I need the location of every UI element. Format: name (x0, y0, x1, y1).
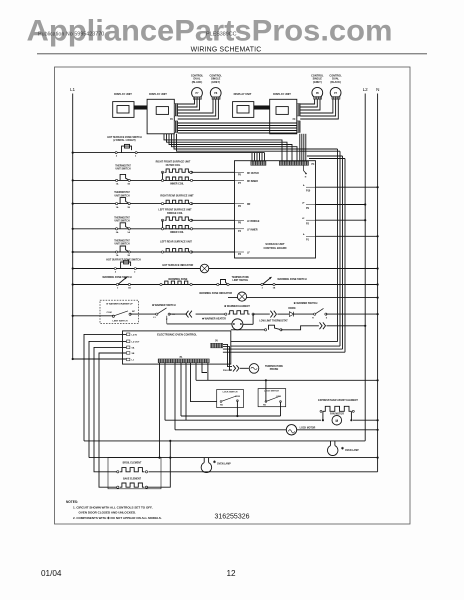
svg-text:DISPLAY UNIT: DISPLAY UNIT (234, 92, 252, 96)
svg-text:OVEN DOOR CLOSED AND UNLOCKED.: OVEN DOOR CLOSED AND UNLOCKED. (79, 511, 137, 515)
svg-text:DISPLAY UNIT: DISPLAY UNIT (114, 92, 132, 96)
wire element to diode (253, 313, 270, 315)
wire bundle outer harness cascade (164, 134, 282, 161)
svg-text:1B: 1B (127, 255, 130, 257)
svg-text:OVEN LAMP: OVEN LAMP (217, 463, 231, 466)
svg-text:L1: L1 (70, 87, 76, 92)
eoc bottom harness wires (164, 363, 166, 420)
bake element return wire (147, 441, 171, 487)
wire lock switch2 output (280, 402, 282, 416)
svg-text:NC: NC (132, 311, 136, 313)
resistor LR coil (161, 251, 163, 253)
wire C to L2 (84, 440, 365, 442)
control knob P7 (192, 88, 203, 99)
board jumper stub (304, 165, 307, 173)
wires control knobs to DU4 connector (300, 99, 314, 104)
wire row7 (72, 283, 74, 285)
right bus bottom return wires (231, 341, 338, 343)
display unit DU3 (233, 102, 254, 118)
svg-text:THERMOSTAT: THERMOSTAT (115, 165, 131, 168)
wire heater to coil node (243, 323, 253, 325)
warmer heater receptacle (166, 316, 168, 324)
svg-text:COM: COM (276, 396, 281, 398)
thermostat switch S5 (116, 251, 118, 253)
svg-text:✱ WARMER ELEMENT: ✱ WARMER ELEMENT (224, 305, 250, 308)
board pin P10 wire to N (306, 186, 316, 188)
svg-text:Publication No 5995423770: Publication No 5995423770 (38, 32, 104, 38)
svg-text:1B: 1B (127, 184, 130, 186)
lamp hot surface indicator (200, 264, 209, 273)
svg-text:LOCK SWITCH: LOCK SWITCH (223, 392, 238, 394)
svg-text:INNER COIL: INNER COIL (170, 231, 184, 234)
svg-text:HOT SURFACE INDICATOR: HOT SURFACE INDICATOR (162, 264, 193, 267)
svg-text:WARMING ZONE SWITCH: WARMING ZONE SWITCH (102, 276, 131, 279)
svg-text:NO: NO (263, 404, 267, 406)
svg-text:01/04: 01/04 (41, 569, 62, 578)
wire L1 vertical (72, 94, 74, 360)
svg-text:COM: COM (235, 396, 240, 398)
thermostat switch S2 (116, 179, 118, 181)
svg-text:1B: 1B (128, 288, 131, 290)
right bus vertical wires (337, 149, 339, 342)
wire warming zone indicator row (228, 297, 378, 299)
svg-text:L2 OUT: L2 OUT (132, 342, 140, 344)
temperature probe jack (249, 364, 259, 374)
wire A oven circuits to N (165, 419, 321, 421)
svg-text:1. CIRCUIT SHOWN WITH ALL CON: 1. CIRCUIT SHOWN WITH ALL CONTROLS SET T… (73, 506, 153, 510)
svg-text:ELECTRONIC OVEN CONTROL: ELECTRONIC OVEN CONTROL (157, 332, 197, 336)
lock motor M2 (175, 429, 286, 431)
wire bundle DU2-F0 to DU4-F0 (178, 122, 297, 124)
svg-text:DIODE: DIODE (288, 308, 296, 310)
connector DU4 upper (297, 104, 300, 117)
probe plug chevrons (233, 365, 236, 371)
svg-text:DISPLAY UNIT: DISPLAY UNIT (149, 92, 167, 96)
wire low limit to chevrons (281, 326, 319, 330)
lock switch box 2 (258, 389, 286, 407)
board pin P6 RR (190, 203, 192, 205)
wire row5 (72, 251, 74, 253)
svg-text:OVEN LAMP: OVEN LAMP (345, 449, 359, 452)
display unit DU1 (113, 102, 134, 118)
warming zone switch 2 (261, 283, 263, 285)
expressthaw assist element (320, 410, 322, 412)
svg-text:INNER COIL: INNER COIL (170, 183, 184, 186)
display unit DU4 (270, 99, 297, 134)
svg-text:RIGHT REAR SURFACE UNIT: RIGHT REAR SURFACE UNIT (160, 194, 194, 197)
display unit DU2 (147, 99, 174, 134)
wire L2 vertical (364, 94, 366, 441)
svg-text:UNIT SWITCH: UNIT SWITCH (114, 195, 129, 197)
svg-text:RF INNER: RF INNER (247, 181, 258, 183)
svg-text:P10: P10 (306, 190, 311, 193)
ribbon cable DU3-DU4 (254, 106, 270, 110)
wire A-prime lock row (181, 415, 281, 417)
svg-text:5V: 5V (215, 341, 218, 343)
resistor warming zone coil (160, 283, 162, 285)
svg-text:1A: 1A (127, 231, 130, 234)
bake element coil (117, 486, 119, 488)
resistor LF bridge coil (161, 219, 163, 221)
low limit thermostat TS2 (265, 329, 267, 331)
svg-text:LOCK SWITCH: LOCK SWITCH (264, 391, 279, 393)
eoc pin 9A (127, 346, 130, 349)
warmer switch S8 (156, 313, 158, 315)
svg-text:LF INNER: LF INNER (247, 229, 258, 231)
lamp warming zone indicator (237, 292, 246, 301)
svg-text:LOCK MOTOR: LOCK MOTOR (300, 427, 316, 429)
wire warmer switch to plug (169, 313, 187, 315)
connector board strip left (251, 161, 266, 165)
svg-text:NO: NO (220, 404, 224, 406)
svg-text:THERMOSTAT: THERMOSTAT (114, 240, 130, 243)
svg-text:(GREY): (GREY) (313, 81, 322, 84)
wire N vertical (377, 94, 379, 472)
wire row1 (72, 152, 74, 154)
wire DU4 F0 drops to board strip (299, 134, 301, 161)
resistor warmer element coil (225, 313, 227, 315)
svg-text:L2: L2 (363, 87, 369, 92)
wire E broil row to N bottom (149, 471, 378, 473)
svg-text:1B: 1B (127, 207, 130, 209)
svg-text:316255326: 316255326 (214, 514, 249, 521)
wire eoc L2 IN loop (84, 334, 127, 441)
wire eoc L2 OUT loop (89, 341, 127, 457)
plug chevrons left pair (186, 311, 189, 318)
eoc pin 9B (127, 352, 130, 355)
svg-text:N: N (376, 87, 379, 92)
svg-text:EXPRESSTHAW ASSIST ELEMENT: EXPRESSTHAW ASSIST ELEMENT (318, 399, 358, 402)
svg-text:BROIL ELEMENT: BROIL ELEMENT (123, 462, 142, 464)
board pin P1 wire to N (306, 235, 316, 237)
svg-text:L2 IN: L2 IN (132, 335, 138, 337)
control knob P7b (330, 87, 341, 98)
wire eoc 5v to probe (223, 344, 232, 366)
wire harness into board strip left (251, 153, 253, 161)
connector DU2 F0 (174, 121, 177, 133)
ribbon cable DU1-DU2 (134, 106, 147, 110)
schematic border frame (55, 67, 411, 524)
board pin P3 LF (190, 251, 192, 253)
resistor RF outer coil (161, 171, 163, 173)
wire warmer drawer to warmer switch (130, 313, 157, 315)
wire L1 to warmer drawer box (72, 315, 74, 317)
board pin P2 wire to L2 (306, 219, 316, 221)
wire low limit to L2 (327, 325, 366, 327)
svg-text:RF OUTER: RF OUTER (247, 173, 259, 175)
wire row2 (72, 179, 74, 181)
eoc pin L2 IN (127, 333, 130, 336)
board pin P8 LF bridge (190, 219, 192, 221)
wire eoc 9B to bake element (99, 353, 127, 487)
svg-text:COM: COM (106, 312, 111, 314)
board pin P9 wire to L2 (306, 204, 316, 206)
wire L1 into eoc (72, 358, 74, 360)
svg-text:NOTES:: NOTES: (66, 500, 78, 504)
svg-text:WIRING SCHEMATIC: WIRING SCHEMATIC (191, 47, 262, 54)
oven lamp left (201, 463, 211, 473)
svg-text:9B: 9B (132, 353, 135, 355)
svg-text:9A: 9A (132, 347, 135, 350)
diode D1 (289, 312, 293, 317)
svg-text:(GREY): (GREY) (211, 81, 220, 84)
connector DU2 upper (174, 104, 177, 117)
wire stubs strip to bus (307, 155, 343, 157)
fan motor M1 (332, 415, 342, 425)
svg-text:RR: RR (247, 204, 251, 206)
svg-text:UNIT SWITCH: UNIT SWITCH (115, 169, 130, 171)
svg-text:TEMPERATURE: TEMPERATURE (232, 276, 250, 279)
element box (108, 457, 161, 488)
svg-text:M: M (335, 419, 338, 423)
control knob P8 (210, 88, 221, 99)
svg-text:PROBE: PROBE (270, 368, 279, 371)
svg-text:LF BRIDGE: LF BRIDGE (247, 221, 260, 223)
svg-text:DISPLAY UNIT: DISPLAY UNIT (273, 92, 291, 96)
svg-text:✱ WARMER DRAWER UP: ✱ WARMER DRAWER UP (106, 303, 133, 306)
warmer switch S9 (314, 313, 316, 315)
wire lock switch1 output (236, 401, 238, 416)
wire row6 (72, 267, 74, 269)
svg-text:✱ WARMER SWITCH: ✱ WARMER SWITCH (294, 302, 318, 305)
lock switch box 1 (217, 390, 244, 408)
resistor LF inner coil (161, 228, 163, 230)
broil element coil (117, 471, 119, 473)
wire bundle outer harness to bus (174, 134, 338, 149)
svg-text:✱ WARMER SWITCH: ✱ WARMER SWITCH (152, 304, 176, 307)
svg-text:LIMIT SWITCH: LIMIT SWITCH (232, 280, 248, 282)
wire eoc 9A to broil element (94, 347, 127, 471)
wire B lock motor to N (297, 429, 378, 431)
thermostat switch S4 (116, 228, 118, 230)
warmer drawer limit box (100, 300, 138, 323)
svg-text:LIMIT SWITCH: LIMIT SWITCH (113, 320, 128, 322)
svg-text:✱ WARMER HEATER: ✱ WARMER HEATER (202, 318, 226, 321)
svg-text:UNIT SWITCH: UNIT SWITCH (114, 221, 129, 223)
svg-text:(BLACK): (BLACK) (192, 81, 203, 84)
eoc pin L1 (127, 358, 130, 361)
wire eoc to low limit thermostat (231, 329, 266, 331)
wire row3 (72, 203, 74, 205)
surface unit control board U1 (235, 161, 316, 258)
board pin P5 RF outer (190, 171, 192, 173)
svg-text:WARMING ZONE INDICATOR: WARMING ZONE INDICATOR (199, 292, 232, 295)
wire D to N (89, 457, 378, 459)
oven lamp right (327, 446, 337, 456)
header rule (37, 53, 427, 55)
plug chevrons right (270, 311, 273, 318)
plug chevrons low limit (320, 322, 323, 329)
svg-text:WARMING ZONE: WARMING ZONE (168, 278, 188, 281)
temperature limit switch TS1 (217, 283, 219, 285)
svg-text:WARMING ZONE SWITCH: WARMING ZONE SWITCH (277, 278, 306, 281)
resistor RF inner coil (161, 179, 163, 181)
svg-text:SURFACE UNIT: SURFACE UNIT (265, 242, 285, 246)
svg-text:LOW LIMIT THERMOSTAT: LOW LIMIT THERMOSTAT (259, 319, 288, 322)
wires control knobs to DU2 connector (178, 99, 195, 104)
svg-text:P08 KW: P08 KW (223, 370, 232, 372)
wire warmer switch2 to N (326, 313, 378, 315)
svg-text:2. COMPONENTS WITH ✱ DO NOT: 2. COMPONENTS WITH ✱ DO NOT APPEAR ON AL… (73, 516, 162, 520)
svg-text:THERMOSTAT: THERMOSTAT (114, 216, 130, 219)
thermostat switch S3 (116, 203, 118, 205)
svg-text:THERMOSTAT: THERMOSTAT (114, 191, 130, 194)
svg-text:✱: ✱ (213, 460, 216, 464)
svg-text:✱: ✱ (341, 447, 344, 451)
electronic oven control U2 (123, 331, 231, 364)
svg-text:BRIDGE COIL: BRIDGE COIL (167, 212, 183, 215)
svg-text:PLES389CC: PLES389CC (206, 32, 237, 38)
svg-text:12: 12 (226, 569, 236, 578)
svg-text:LEFT REAR SURFACE UNIT: LEFT REAR SURFACE UNIT (160, 240, 192, 243)
control knob P8b (312, 87, 323, 98)
wire lock switch2 feed (265, 379, 267, 381)
warming zone switch S7 (116, 283, 118, 285)
svg-text:BAKE ELEMENT: BAKE ELEMENT (123, 477, 142, 480)
svg-text:OUTER COIL: OUTER COIL (166, 164, 181, 167)
wire row to N mid (196, 379, 378, 381)
wire row4 (72, 228, 74, 230)
hot surface zone switch S6 (114, 268, 116, 270)
svg-text:(BLACK): (BLACK) (330, 81, 341, 84)
svg-text:(2 DISPAL 1 RIGHT): (2 DISPAL 1 RIGHT) (113, 139, 135, 142)
hot surface zone switch S1 (115, 152, 117, 154)
eoc pin L2 OUT (127, 340, 130, 343)
connector board strip right P4 (279, 161, 308, 165)
connector DU4 F0 (297, 121, 300, 133)
svg-text:CONTROL BOARD: CONTROL BOARD (263, 246, 286, 250)
resistor RR coil (161, 203, 163, 205)
svg-text:UNIT SWITCH: UNIT SWITCH (114, 244, 129, 246)
